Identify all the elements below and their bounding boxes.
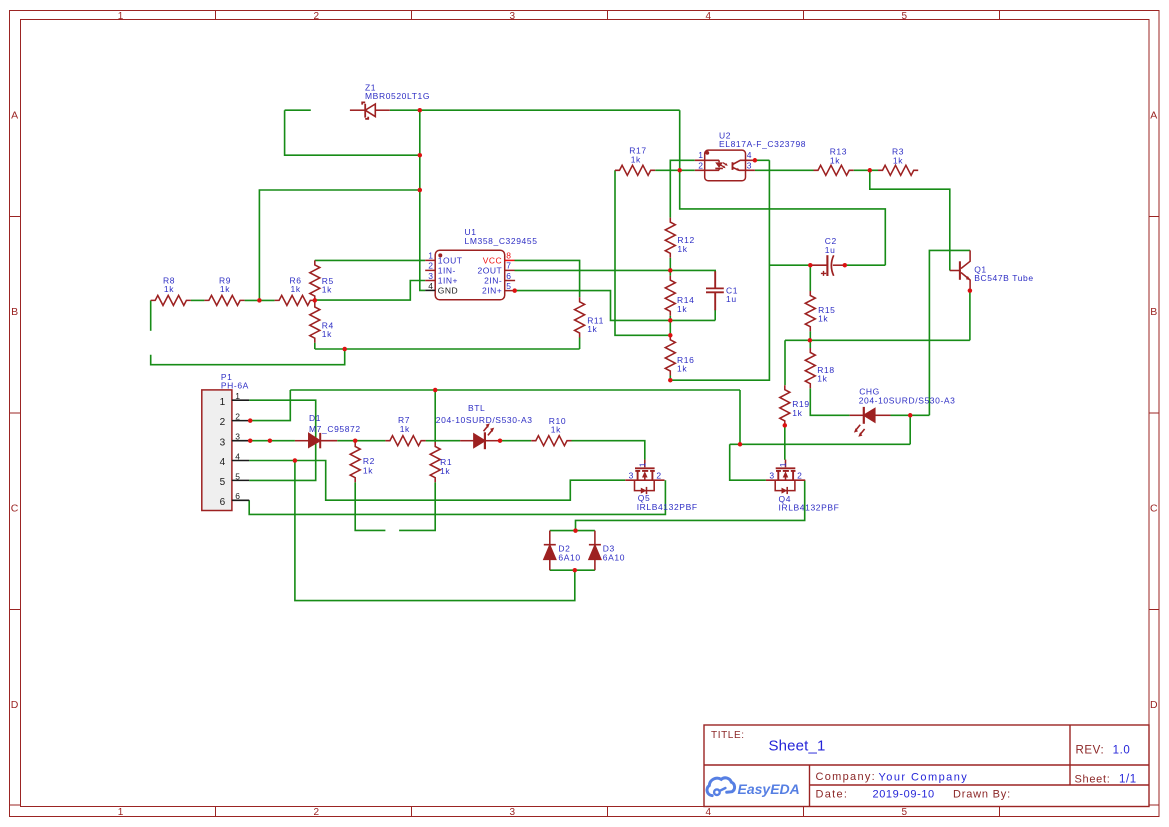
svg-text:204-10SURD/S530-A3: 204-10SURD/S530-A3 [859,396,956,406]
junction R1 top node [433,388,438,393]
junction R6-R5-R4 node [313,298,318,303]
wire GND vertical rail to U1 pin4 [420,110,425,290]
junction R16 top node [668,333,673,338]
wire between junctions [669,320,671,335]
diode Z1 [350,102,390,119]
svg-text:D: D [1150,699,1158,711]
svg-text:IRLB4132PBF: IRLB4132PBF [779,503,840,513]
svg-text:Company:: Company: [816,771,877,783]
resistor R12 [665,218,675,258]
svg-text:5: 5 [506,281,511,291]
svg-text:1IN-: 1IN- [438,266,456,276]
svg-text:204-10SURD/S530-A3: 204-10SURD/S530-A3 [436,415,533,425]
resistor R18 [805,348,815,388]
svg-text:2OUT: 2OUT [478,266,503,276]
svg-text:1.0: 1.0 [1113,745,1131,757]
wire U1 pin8 to R11 [515,260,580,297]
wire CHG right [891,414,930,416]
wire branch to C2 left [769,264,810,266]
wire R8 left loop [150,300,152,330]
wire to Q4 pin3 [730,444,766,480]
resistor R1 [430,442,440,482]
junction R19 bottom [783,423,788,428]
transistor Q1 [950,250,971,288]
wire R4 bottom [314,343,316,349]
wire R14 bottom [669,316,671,321]
junction C2 right node [843,263,848,268]
wire R2 bottom [355,482,385,530]
wire y444 row [730,443,911,445]
wire U1 pin3 [315,281,425,301]
junction CHG cathode node [908,413,913,418]
svg-text:4: 4 [428,281,433,291]
junction P1 pin4 node [293,458,298,463]
svg-text:A: A [1150,110,1157,122]
wire R10 to Q5 gate [572,441,645,460]
svg-text:1u: 1u [726,294,737,304]
svg-text:1k: 1k [893,155,903,165]
svg-text:6: 6 [506,271,511,281]
svg-text:1: 1 [220,397,226,408]
svg-text:Sheet_1: Sheet_1 [769,738,826,755]
optocoupler U2 [695,150,755,181]
junction P1 pin2 [248,418,253,423]
wire U1 pin5 route [515,291,716,321]
resistor R8 [151,295,191,305]
wire junction to Q1 base [870,170,950,270]
resistor R19 [780,385,790,425]
resistor R9 [204,295,244,305]
wire top rail y110 [420,109,680,111]
wire D2 D3 bottom bar [550,569,595,571]
wire y340 row [785,339,970,341]
svg-text:1: 1 [118,807,124,818]
svg-text:2IN+: 2IN+ [482,286,502,296]
wire U2 pin1 to R12 top [670,160,695,217]
junction R15-R18 node [808,338,813,343]
svg-text:1k: 1k [440,466,450,476]
wire R9 R6 link [245,299,275,301]
wire P1 pin6 to Q5 pin2 [249,480,665,514]
svg-text:6A10: 6A10 [603,552,625,562]
svg-text:3: 3 [428,271,433,281]
svg-text:2: 2 [797,471,802,481]
wire Z1 left floating segment [285,109,311,111]
svg-text:Drawn By:: Drawn By: [953,788,1011,800]
diode D1 [295,433,337,448]
svg-text:3: 3 [220,437,226,448]
svg-text:2: 2 [428,261,433,271]
junction BTL cathode node [498,438,503,443]
wire BTL junction to R10 [500,440,531,442]
svg-text:1: 1 [118,11,124,22]
resistor R3 [878,165,918,175]
svg-text:1k: 1k [220,284,230,294]
svg-text:6: 6 [220,497,226,508]
junction R12-R14 node [668,268,673,273]
svg-text:VCC: VCC [483,256,502,266]
svg-text:1: 1 [698,150,703,160]
wire R17 right to U2 pin2 junction [655,169,695,171]
wire R15 bottom [809,331,811,340]
wire C1 bottom [714,310,716,321]
wire Z1 cathode to GND rail [390,109,420,111]
svg-text:A: A [11,110,18,122]
svg-text:1k: 1k [164,284,174,294]
EasyEDA logo [707,778,800,797]
svg-text:B: B [1150,306,1157,318]
svg-text:1: 1 [779,462,788,467]
junction pin3 wire node [268,438,273,443]
svg-text:6: 6 [235,491,240,501]
svg-text:LM358_C329455: LM358_C329455 [465,236,538,246]
svg-text:1k: 1k [677,244,687,254]
wire P1 pin4 to Q5 pin3 [249,461,625,501]
svg-text:1k: 1k [587,324,597,334]
junction R17-U2 pin2 node [677,168,682,173]
wire R7 to BTL [426,440,461,442]
svg-text:3: 3 [510,11,516,22]
junction U1 pin5 [512,288,517,293]
svg-text:1k: 1k [818,314,828,324]
resistor R14 [665,276,675,316]
op-amp U1 [425,250,515,300]
svg-text:1k: 1k [817,374,827,384]
svg-text:3: 3 [769,471,774,481]
junction R4 bottom net [342,347,347,352]
svg-text:4: 4 [747,150,752,160]
svg-text:1u: 1u [825,245,836,255]
resistor R11 [575,297,585,337]
junction Q1 emitter [968,288,973,293]
svg-text:1k: 1k [631,154,641,164]
svg-text:Date:: Date: [816,788,849,800]
junction R16 bottom node [668,378,673,383]
svg-text:4: 4 [235,451,240,461]
svg-text:1k: 1k [792,408,802,418]
diode D3 [589,531,601,571]
wire P1 pin2 [249,390,290,421]
junction R9-R6 node [257,298,262,303]
svg-text:1k: 1k [322,329,332,339]
wire broken segment to R1 bottom [399,482,435,530]
wire net Z1 down right of U2 [680,110,886,265]
wire Q1 collector link [929,250,970,415]
svg-text:5: 5 [235,471,240,481]
svg-text:BC547B Tube: BC547B Tube [974,273,1034,283]
svg-text:5: 5 [902,807,908,818]
connector P1 [202,390,249,511]
junction Q4 gate-path node [738,442,743,447]
svg-text:1/1: 1/1 [1119,774,1137,786]
wire R13 R3 junction [854,169,878,171]
resistor R13 [814,165,854,175]
svg-text:2: 2 [698,160,703,170]
diode D2 [544,531,556,571]
title block [704,725,1149,807]
wire D2 D3 to Q4 pin2 [576,480,805,530]
svg-text:2019-09-10: 2019-09-10 [873,789,935,801]
svg-text:2: 2 [314,11,320,22]
svg-text:Sheet:: Sheet: [1075,773,1111,785]
junction GND rail y155 [418,153,423,158]
wire R19 top drop [784,340,786,385]
mosfet Q4 [766,460,805,495]
svg-text:REV:: REV: [1076,744,1105,756]
svg-text:2: 2 [314,807,320,818]
svg-text:D: D [11,699,19,711]
svg-text:M7_C95872: M7_C95872 [309,424,361,434]
svg-text:1k: 1k [551,424,561,434]
resistor R6 [275,295,315,305]
svg-text:C: C [11,503,19,515]
LED CHG [850,407,891,437]
resistor R5 [310,260,320,300]
wire U2 pin4 drop to R16 bottom [670,160,769,380]
junction D2-D3 anode-top node [573,528,578,533]
wire D2 D3 top bar [550,530,595,532]
svg-text:4: 4 [706,807,712,818]
junction R14-C1 node [668,318,673,323]
resistor R7 [385,436,425,446]
svg-text:EL817A-F_C323798: EL817A-F_C323798 [719,139,806,149]
wire P1 pin3 to D1 [249,440,295,442]
wire CHG junction down [909,415,911,444]
svg-text:2: 2 [235,412,240,422]
wire R11 bottom [579,338,581,350]
wire U2 pin3 to R13 [755,169,814,171]
wire R19 bottom to Q4 gate [784,425,786,459]
wire left drop to y155 [285,110,420,155]
svg-text:PH-6A: PH-6A [221,381,249,391]
LED BTL [460,423,500,449]
svg-text:5: 5 [220,477,226,488]
svg-text:1k: 1k [400,424,410,434]
svg-text:BTL: BTL [468,403,485,413]
resistor R4 [310,303,320,343]
svg-text:1k: 1k [677,364,687,374]
wire pin4 junction down to D2 D3 bottom [295,461,575,601]
wire R8 R9 link [191,299,205,301]
svg-text:3: 3 [235,432,240,442]
svg-text:8: 8 [506,251,511,261]
resistor R2 [350,442,360,482]
junction C2 left node [808,263,813,268]
svg-text:1IN+: 1IN+ [438,276,458,286]
wire R18 bottom to CHG [810,388,849,415]
svg-text:1k: 1k [363,465,373,475]
svg-text:2IN-: 2IN- [484,276,502,286]
junction U2 pin4 [753,158,758,163]
svg-text:1: 1 [638,462,647,467]
svg-text:1k: 1k [291,284,301,294]
wire R1 top [434,390,436,442]
svg-text:Your Company: Your Company [879,771,969,783]
wire R18 top [809,340,811,348]
wire D1 to R2 junction [337,440,385,442]
wire Q1 emitter down [969,291,971,341]
resistor R10 [531,436,571,446]
svg-text:IRLB4132PBF: IRLB4132PBF [637,502,698,512]
svg-text:GND: GND [438,286,458,296]
wire y349 row [315,348,580,350]
svg-text:MBR0520LT1G: MBR0520LT1G [365,91,430,101]
svg-text:2: 2 [220,417,226,428]
junction GND rail y190 [418,188,423,193]
svg-text:6A10: 6A10 [558,552,580,562]
svg-text:3: 3 [747,160,752,170]
wire U1 pin7 to C1 top [515,270,716,272]
capacitor C2 polarized [810,255,845,276]
svg-text:2: 2 [656,471,661,481]
svg-text:1OUT: 1OUT [438,256,463,266]
svg-text:3: 3 [510,807,516,818]
svg-text:4: 4 [220,457,226,468]
resistor R17 [615,165,655,175]
svg-text:5: 5 [902,11,908,22]
svg-text:4: 4 [706,11,712,22]
svg-text:7: 7 [506,261,511,271]
wire y190 branch [259,190,419,300]
svg-text:1: 1 [235,391,240,401]
svg-text:EasyEDA: EasyEDA [738,781,800,797]
junction D1-R2 node [353,438,358,443]
wire R12 bottom [669,258,671,271]
wire C2 right to riser [845,264,886,266]
junction Z1 cathode / GND rail [418,108,423,113]
svg-text:3: 3 [629,471,634,481]
wire R14 top [669,270,671,275]
svg-text:1: 1 [428,251,433,261]
junction P1 pin3 [248,438,253,443]
resistor R15 [805,291,815,331]
svg-text:B: B [11,306,18,318]
mosfet Q5 [625,460,664,495]
wire R5 top to U1 pin1 [315,259,425,261]
junction D2-D3 bottom node [573,568,578,573]
wire C2 to R15 [809,265,811,291]
svg-text:1k: 1k [322,285,332,295]
svg-text:D1: D1 [309,413,321,423]
wire loop lower segment [151,349,345,365]
junction R13-R3 node [868,168,873,173]
svg-text:TITLE:: TITLE: [711,730,745,741]
resistor R16 [665,335,675,375]
wire R16 bottom [669,376,671,381]
svg-text:1k: 1k [830,155,840,165]
svg-text:1k: 1k [677,304,687,314]
capacitor C1 [706,271,724,310]
svg-text:C: C [1150,503,1158,515]
wire y444 to top rail y390 [739,390,741,444]
wire P1 pin1 to pin5 [249,400,316,480]
wire R17 left drop [615,170,670,335]
wire top rail y390 [290,389,740,391]
wire U2 pin4 right [755,159,770,161]
